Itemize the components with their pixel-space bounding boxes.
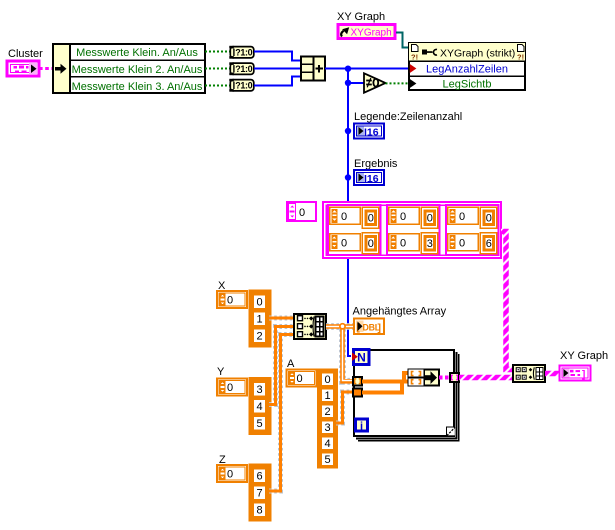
svg-text:6: 6 [486,238,492,250]
cluster element 2 of array constant [387,205,440,255]
wire orange 1D Z to build array [269,335,294,492]
array constant Y column [250,378,271,434]
svg-text:5: 5 [324,454,330,466]
array constant A column [318,370,337,468]
wire green dotted row1 to bool-to-01 [205,51,230,53]
svg-text:0: 0 [400,211,406,223]
svg-text:?!: ?! [411,53,418,62]
wire teal refnum to property node [396,33,408,48]
svg-text:5: 5 [256,418,262,430]
svg-text:Messwerte Klein 3. An/Aus: Messwerte Klein 3. An/Aus [72,81,203,93]
svg-text:XY Graph: XY Graph [337,11,385,23]
wire pink dashed cluster to unbundle [39,67,55,70]
bool to 0,1 node 1 [229,46,254,59]
svg-text:0: 0 [368,213,374,225]
array constant Y index box [217,379,247,396]
svg-text:3: 3 [427,238,433,250]
svg-text:1: 1 [256,314,262,326]
svg-text:0: 0 [297,373,303,385]
wire blue b01-2 to add [254,68,301,70]
svg-text:0: 0 [459,238,465,250]
svg-text:0: 0 [227,469,233,481]
svg-text:0: 0 [459,211,465,223]
build cluster array node [513,365,545,382]
wire green dotted row3 [205,85,230,87]
svg-text:]: ] [378,322,382,334]
property node right page icon [517,45,524,62]
bool to 0,1 node 3 [229,79,254,92]
svg-text:1: 1 [324,390,330,402]
wire orange 2D build array out to junction and DBL [326,323,354,330]
svg-text:3: 3 [324,422,330,434]
svg-text:Y: Y [217,366,225,378]
svg-text:0: 0 [427,213,433,225]
control refnum XYGraph [338,25,395,39]
property row LegAnzahlZeilen [410,64,417,73]
svg-text:3: 3 [256,384,262,396]
wire orange tunnel1 to bundle [362,373,408,381]
wire pink hatched loop tunnel to build cluster array [459,375,513,381]
svg-text:0: 0 [486,213,492,225]
array constant A index box [287,370,317,387]
svg-text:Cluster: Cluster [8,48,43,60]
cluster element 3 of array constant [446,205,499,255]
indicator terminal DBL array [354,319,384,335]
svg-text:i: i [360,421,363,433]
unbundle by name node [53,44,205,93]
loop count terminal N [354,350,370,365]
svg-text:XY Graph: XY Graph [560,350,608,362]
wire blue vertical main from add output down to N [347,68,351,357]
wire orange 1D A to loop tunnel 2 [336,392,353,423]
wire blue b01-1 to add [254,52,301,61]
junction dot neq input [345,80,351,86]
junction ring 2D wire [340,324,345,329]
svg-text:6: 6 [256,471,262,483]
compound arithmetic add node [301,57,325,81]
junction dot add out [345,66,351,72]
svg-text:0: 0 [400,238,406,250]
wire green dotted row2 [205,68,230,70]
svg-text:Messwerte Klein 2. An/Aus: Messwerte Klein 2. An/Aus [72,64,203,76]
svg-text:4: 4 [256,401,262,413]
svg-text:XYGraph (strikt): XYGraph (strikt) [440,48,515,60]
indicator terminal I16 Ergebnis [354,170,384,185]
svg-text:Legende:Zeilenanzahl: Legende:Zeilenanzahl [354,111,462,123]
wire pink hatched build cluster array to XY Graph [545,371,559,377]
wire orange 1D Y to build array [269,327,294,405]
svg-text:Ergebnis: Ergebnis [354,158,398,170]
svg-text:0: 0 [341,211,347,223]
cluster element 1 of array constant [328,205,381,255]
bundle node [409,370,440,386]
svg-text:0: 0 [341,238,347,250]
wire blue junction to neq [348,82,364,84]
svg-text:7: 7 [256,488,262,500]
junction dot I16 no1 [345,128,351,134]
cluster array constant shell [323,202,501,258]
svg-text:A: A [287,358,295,370]
svg-text:0: 0 [324,374,330,386]
svg-text:0: 0 [256,297,262,309]
array constant Z index box [217,465,247,482]
svg-text:Messwerte Klein. An/Aus: Messwerte Klein. An/Aus [76,47,198,59]
build array node [294,314,326,339]
wire green dotted neq to property [386,82,409,84]
loop tunnel 1 auto-index input [353,377,362,386]
array constant Z column [250,465,271,521]
cluster control terminal Cluster [7,61,39,76]
svg-text:N: N [357,351,366,365]
svg-text:4: 4 [324,438,330,450]
junction dot I16 no2 [345,174,351,180]
wire orange tunnel2 to bundle [362,382,408,393]
bool to 0,1 node 2 [229,62,254,75]
wire orange 2D junction down to loop tunnel 1 [343,329,354,381]
for loop frame shadow lines [356,352,459,441]
indicator terminal I16 Legende [354,124,384,139]
property row LegSichtb [410,79,417,88]
svg-text:0: 0 [227,382,233,394]
array constant X column [250,291,271,347]
wire pink hatched cluster array constant to build node [501,232,513,370]
wire orange 1D X to build array [269,316,294,321]
svg-text:]: ] [582,370,585,381]
loop iteration terminal i [356,419,368,433]
loop output tunnel auto-index [450,373,459,382]
svg-text:LegSichtb: LegSichtb [443,79,492,91]
svg-text:8: 8 [256,505,262,517]
svg-text:LegAnzahlZeilen: LegAnzahlZeilen [426,64,508,76]
not equal zero node [364,73,386,92]
svg-text:XYGraph: XYGraph [351,28,392,39]
svg-text:0: 0 [227,295,233,307]
property node link glyph [422,49,437,55]
svg-text:Angehängtes Array: Angehängtes Array [353,306,447,318]
array constant X index box [217,291,247,308]
property node left page icon [411,45,418,62]
black arrow into unbundle [55,67,62,71]
svg-text:2: 2 [256,331,262,343]
loop tunnel 2 solid input [353,389,362,397]
property node XYGraph (strikt) [408,43,526,90]
wire blue add output to property node [325,68,409,70]
for loop frame [354,350,454,436]
svg-text:0: 0 [299,207,305,219]
wire pink dashed bundle to tunnel [439,376,450,380]
svg-text:I16: I16 [364,127,379,139]
array index box of cluster array constant [287,202,316,221]
for loop folded corner [447,427,456,436]
svg-text:0: 0 [368,238,374,250]
red coercion arrow on N [352,353,358,361]
svg-text:2: 2 [324,406,330,418]
svg-text:?1:0: ?1:0 [235,48,252,58]
wire blue b01-3 to add [254,77,301,86]
indicator terminal XY Graph [560,366,591,381]
